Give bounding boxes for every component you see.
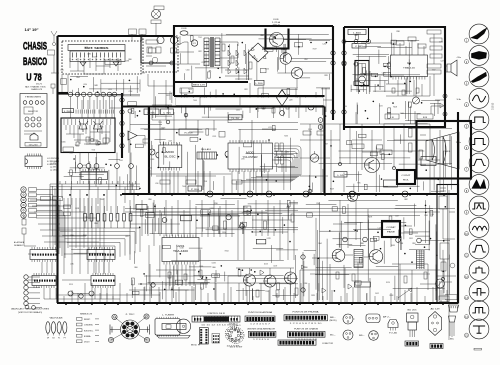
svg-text:R293: R293 [273,46,277,48]
svg-text:R177: R177 [260,195,264,197]
waveform photo 1 [469,24,489,44]
wires right mid grid [300,124,440,194]
svg-text:D407: D407 [93,56,97,58]
FI sub components [90,138,94,142]
junction circles row [68,92,72,96]
balun T2 [152,10,161,19]
svg-text:L127: L127 [378,227,382,229]
svg-text:L301: L301 [119,160,123,162]
sound junction circles [342,40,346,44]
svg-text:1,25 A: 1,25 A [272,21,281,24]
svg-text:R333: R333 [389,295,393,297]
long bus wires center [125,209,455,216]
tuner unit diagram [155,319,180,336]
svg-text:T132: T132 [91,149,95,151]
svg-text:T103: T103 [203,181,207,183]
waveform number tag 9 [464,210,468,214]
wire mesh bottom center [129,267,298,300]
svg-text:C296: C296 [201,62,205,64]
svg-text:R119: R119 [69,284,73,286]
thick channel lower [122,105,325,107]
svg-text:19-71: 19-71 [36,84,43,86]
svg-text:R58: R58 [424,215,427,217]
cap row under U5 [204,270,218,288]
svg-text:L457: L457 [110,95,114,97]
svg-text:C470: C470 [439,42,443,44]
wire mesh top left [70,76,140,96]
svg-text:R30: R30 [70,235,73,237]
junction dots bus [69,194,445,196]
socket footprint dashed [228,328,244,344]
svg-text:R420: R420 [83,235,87,237]
wires under sound block [431,96,445,114]
circled tag 1 [318,118,323,123]
wire mesh power box [180,33,330,80]
sound thick feed [344,27,369,42]
svg-text:T288: T288 [399,243,403,245]
svg-text:DE MANDO: DE MANDO [14,244,24,247]
power block border [174,26,333,96]
speaker LS1 [447,60,457,76]
waveform photo 5 [469,110,489,130]
svg-text:TL 20: TL 20 [231,118,240,120]
svg-text:VALVULAS: VALVULAS [50,317,64,320]
main schematic right border [457,112,459,303]
resistor row harness [84,214,87,222]
sound trap shield dashed border [143,36,178,72]
svg-text:T201: T201 [198,37,202,39]
svg-text:R38: R38 [396,31,399,33]
svg-text:T404: T404 [182,186,186,188]
wires test row down [80,168,131,194]
svg-text:D367: D367 [324,144,328,146]
pot P40 [436,279,445,288]
wires between headers [28,254,109,280]
waveform photo 11 [469,239,489,259]
diode row CR5 [228,68,247,74]
fuse F1 [180,31,188,35]
socket footprint dashed [225,326,241,342]
waveform photo 15 [469,319,489,339]
label boxes under trunk [144,109,159,115]
waveform number tag 2 [464,60,468,64]
waveform number tag 13 [464,296,468,300]
svg-text:C100: C100 [186,69,190,71]
svg-text:D211: D211 [83,165,87,167]
svg-text:R 259: R 259 [185,133,194,135]
svg-text:D164: D164 [148,168,152,170]
power wires right [277,40,333,88]
FI module label [63,147,74,152]
delay line comb box [70,51,125,62]
svg-text:BD...: BD... [359,335,366,337]
mid vertical trunk [121,93,123,158]
svg-text:R304: R304 [161,127,165,129]
wire mesh sound box [351,33,420,94]
power block right channel [332,26,334,120]
node bottom tall box [441,277,444,280]
volume pot [413,97,420,104]
waveform number tag 1 [464,38,468,42]
svg-text:SELECTOR: SELECTOR [28,111,39,113]
svg-text:T230: T230 [265,291,269,293]
waveform photo 10 [469,218,489,238]
svg-text:L330: L330 [83,84,87,86]
svg-text:SIMBOLOS: SIMBOLOS [80,314,93,316]
sound inner panel parts [427,30,441,34]
wire mesh sound extra [351,71,404,92]
wires audio stage [228,268,300,303]
svg-text:R48: R48 [94,85,97,87]
diode D102 [113,62,119,66]
svg-text:L272: L272 [379,105,383,107]
sound label boxes [348,30,366,35]
FI module box [61,118,115,153]
discriminator coils [430,38,442,42]
trap capacitor [152,57,158,63]
junction row line [58,93,122,95]
svg-text:4 Khz: 4 Khz [457,57,461,59]
coil boxes right mid [303,131,311,135]
FI transistor M2 [94,121,103,132]
routing channel clear band [176,98,323,106]
svg-text:250 V: 250 V [273,24,281,26]
trunk junction circles [120,98,124,102]
svg-text:D251: D251 [409,238,413,240]
waveform photo 3 [469,67,489,87]
svg-text:TDA-4400: TDA-4400 [173,250,189,253]
connector header P1 [30,250,58,260]
svg-text:C169: C169 [273,266,277,268]
svg-text:125-220: 125-220 [29,144,38,146]
TO-39 can X1 [343,314,353,324]
svg-text:DL-1: DL-1 [388,184,394,186]
svg-text:C412: C412 [400,113,404,115]
svg-text:D153: D153 [264,264,268,266]
svg-text:R88: R88 [360,243,363,245]
svg-text:R90: R90 [148,199,151,201]
wires ICs to bus [162,171,268,194]
svg-text:R18: R18 [354,35,357,37]
svg-text:D182: D182 [180,248,184,250]
svg-text:BU 205: BU 205 [408,310,417,312]
svg-text:U201: U201 [177,244,186,248]
label box bottom right [354,282,370,287]
bottom right dash mark [474,348,482,350]
labels under ICs [160,180,170,184]
TO-3 strip S9 [430,344,443,349]
svg-text:R22: R22 [244,89,247,91]
round can X4 [369,331,379,341]
svg-text:VALVULAS Y SEMICONDUCTORES: VALVULAS Y SEMICONDUCTORES [11,308,50,311]
label box L95 [334,172,347,178]
svg-text:U 78: U 78 [26,71,42,83]
waveform photo 8 [469,175,489,195]
svg-text:L 200: L 200 [256,83,263,85]
connector header P4 [91,276,115,286]
svg-text:L399: L399 [84,47,88,49]
long bus wires right lower [300,270,440,274]
FI module internals [66,125,110,142]
svg-text:R60: R60 [134,267,137,269]
waveform number tag 11 [464,253,468,257]
svg-text:1 2 3 4 5 6 7 8 9 10: 1 2 3 4 5 6 7 8 9 10 [290,323,322,325]
svg-text:MOD: MOD [166,151,174,154]
svg-text:D309: D309 [210,208,214,210]
node circles center [166,120,170,124]
resistor verticals center [224,221,227,229]
svg-text:DEFL: DEFL [444,151,452,153]
trap label box [146,40,158,44]
choke coil L40 hatched [354,250,363,268]
tuner block corner stub [58,92,69,94]
svg-text:R108: R108 [393,107,397,109]
input jack circles column [21,187,26,192]
trap boxes [148,48,155,53]
caps lower power [262,104,265,109]
resistors audio [256,290,259,297]
svg-text:C383: C383 [125,60,129,62]
svg-text:L243: L243 [168,140,172,142]
wire mesh module area [64,155,120,190]
selector pentagon mark [30,133,38,140]
svg-text:L486: L486 [285,151,289,153]
labels right mid [352,144,364,149]
svg-text:PL: PL [58,338,60,340]
wire mesh power lower left [182,88,248,119]
yoke trapezoid [426,132,459,169]
waveform number tag 14 [464,315,468,319]
svg-text:COMP: COMP [387,227,397,229]
transistor Q3 [291,67,302,78]
svg-text:T444: T444 [193,100,197,102]
svg-text:ROL: ROL [403,180,410,182]
yoke block border [417,121,472,179]
wire mesh mid band [127,123,298,190]
filter cap C1 [281,44,287,58]
svg-text:T473: T473 [192,43,196,45]
valve outlines V1-V4 [46,322,50,334]
transistor Q10 [365,158,380,173]
amp diode triangle [128,131,137,140]
svg-text:A LA PLACA: A LA PLACA [14,241,25,244]
svg-text:BC...: BC... [330,335,337,337]
sound block border [344,27,445,96]
wire mesh power lower [256,86,330,118]
svg-text:R92: R92 [412,243,415,245]
input filter boxes [129,29,137,35]
svg-text:REG 12V: REG 12V [193,84,206,86]
svg-text:C267: C267 [395,216,399,218]
4pin unit X3 [366,314,380,323]
wires headers down [44,288,160,299]
tuner base bar [157,336,190,339]
power lower area wires [250,83,333,113]
sound output parts [380,76,430,96]
svg-text:(+) 33V: (+) 33V [50,166,57,168]
sound bottom boxes [385,114,399,119]
tuner wires down [70,58,118,74]
svg-text:T248: T248 [75,145,79,147]
IC U2 cluster [228,143,273,169]
transformer T1 secondary [215,38,220,66]
diamond junction on channel [277,90,288,106]
svg-text:T415: T415 [188,89,192,91]
tuner header box [81,172,108,180]
transistor Q20 [244,274,256,286]
waveform photo 4 [469,89,489,109]
wires comparator [333,200,418,248]
svg-text:L174: L174 [268,127,272,129]
antenna coupling parts [48,50,55,55]
svg-text:T259: T259 [158,122,162,124]
wires bottom right [303,252,456,303]
svg-text:R449: R449 [330,188,334,190]
svg-text:L341: L341 [125,236,129,238]
svg-text:YCLUSTER: YCLUSTER [243,156,258,159]
svg-text:R206: R206 [378,261,382,263]
waveform photo 7 [469,153,489,173]
svg-text:(+) 140V: (+) 140V [50,170,58,172]
thick channel upper [174,95,325,97]
circled nodes center lower [162,218,167,223]
svg-text:R80: R80 [304,267,307,269]
label box REG2 [179,129,198,135]
IC U5 TDA [162,238,199,262]
sound IC top parts [394,40,424,55]
svg-text:D193: D193 [271,36,275,38]
mains voltage selector box [20,94,47,148]
svg-text:R235: R235 [311,295,315,297]
harness verticals to connector ICs [60,198,104,274]
power wires left [174,36,200,64]
crt base crown [449,305,459,312]
TO-92 X8 [449,316,456,322]
svg-text:R148: R148 [99,126,103,128]
transistor Q2 [280,53,291,64]
svg-text:L145: L145 [116,61,120,63]
svg-text:1 2 3 4 5 6: 1 2 3 4 5 6 [253,339,269,341]
wire mesh below sound [356,101,440,125]
svg-text:D280: D280 [199,266,203,268]
thick feed wire L [141,36,174,64]
wires IC U5 down [166,265,194,287]
svg-text:C481: C481 [382,72,386,74]
tag circles row [343,237,348,242]
svg-text:D124: D124 [386,282,390,284]
tuner shield dashed border [62,41,141,74]
svg-text:31015: 31015 [491,102,495,110]
svg-text:R322: R322 [225,251,229,253]
svg-text:D222: D222 [298,69,302,71]
svg-text:C354: C354 [128,91,132,93]
svg-text:T161: T161 [244,207,248,209]
transistor Q31 [369,250,383,264]
thick bus y194 [122,193,458,195]
svg-text:BASICO: BASICO [23,56,47,68]
svg-text:C325: C325 [212,136,216,138]
label box L201 [62,109,73,113]
svg-text:C140: C140 [430,214,434,216]
CRT tall box label [439,296,449,302]
channel lines redraw [174,95,325,97]
bridge rectifier D1-D4 [248,43,268,62]
junction dots right mid [339,163,342,166]
legend symbols column [77,318,83,321]
waveform number tag 6 [464,146,468,150]
svg-text:MOD: MOD [246,152,254,155]
svg-text:CONT: CONT [402,175,412,177]
circled tag 2 [318,125,323,130]
label box L200 [254,80,264,85]
Q1 border recess [266,29,289,49]
connector header P2 [87,250,115,260]
connector strip S7 [278,340,316,345]
vertical ladder x303 [301,255,305,259]
waveform photo 13 [469,282,489,302]
main schematic left border [56,36,58,303]
delay line dark box [384,180,398,187]
waveform number tag 12 [464,275,468,279]
transistor Q22 [285,272,297,284]
regulator transistor Q1 [270,33,284,47]
delay line pin comb [73,53,121,58]
bus node circles [207,191,213,197]
waveform number tag 3 [464,81,468,85]
trap transistor TR2 [170,36,177,43]
svg-text:D338: D338 [75,208,79,210]
control thick box [397,170,415,184]
sound IC U4 [391,55,428,77]
svg-text:R22: R22 [198,51,201,53]
diode audio [260,270,264,275]
svg-text:R137: R137 [313,48,317,50]
svg-text:TENSIONES: TENSIONES [25,97,42,99]
junction circle on channel [280,111,285,116]
svg-text:R28: R28 [324,75,327,77]
small boxes center lower [136,205,147,210]
module top comb [76,110,95,114]
svg-text:R478: R478 [368,216,372,218]
CRT socket assembly [121,320,140,339]
svg-text:FUS: FUS [182,28,188,30]
small transistor Q0 [191,40,197,46]
svg-text:FASE: FASE [387,231,396,234]
svg-text:CHASIS U-78: CHASIS U-78 [31,88,43,91]
trapezoid package X5 [388,320,398,328]
components under U5 [168,272,171,278]
svg-text:MOD. FI: MOD. FI [191,345,201,347]
IC outline legend [25,156,42,167]
diode D20 [440,103,444,108]
svg-text:50 Hz: 50 Hz [457,99,462,101]
svg-text:C285: C285 [87,53,91,55]
FI module pin comb [64,119,111,125]
trap coil L1 [147,47,152,53]
wire mesh right mid 2 [336,200,430,250]
switch S1 [174,42,188,45]
test point circles column [24,275,28,279]
svg-text:T433: T433 [284,135,288,137]
svg-text:C452: C452 [375,293,379,295]
svg-text:D378: D378 [267,238,271,240]
wires upper center [152,104,276,143]
svg-text:PUNTOS DE PRUEBA: PUNTOS DE PRUEBA [293,311,320,314]
ground tag circles [25,305,29,309]
waveform number tag 4 [464,103,468,107]
svg-text:C441: C441 [236,109,240,111]
wire mesh right mid [310,129,453,192]
